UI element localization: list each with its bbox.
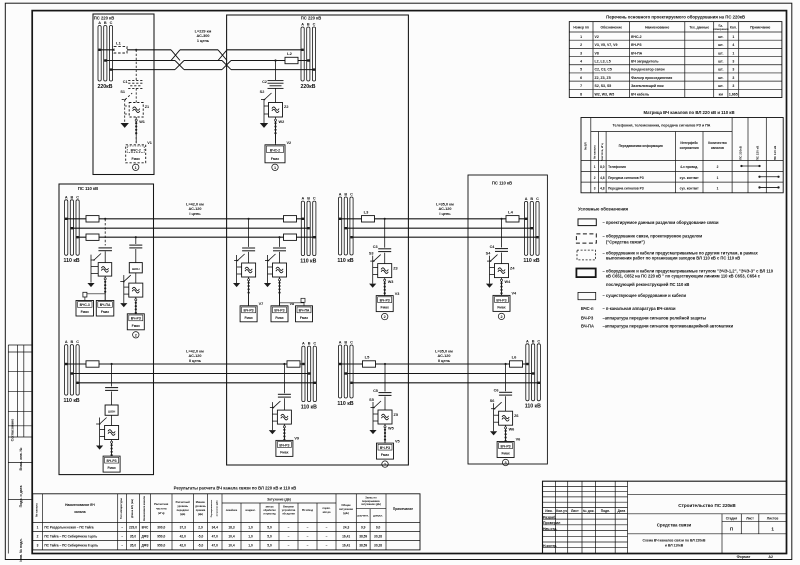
svg-text:АС-120: АС-120 (439, 207, 452, 211)
svg-text:№ канала: № канала (592, 145, 596, 159)
svg-text:ВЧ-РЗ: ВЧ-РЗ (380, 446, 390, 450)
svg-text:1,0: 1,0 (248, 534, 253, 538)
svg-text:выполнения работ по организаци: выполнения работ по организации заходов … (606, 256, 740, 261)
svg-text:сопряжения: сопряжения (680, 146, 699, 150)
svg-text:S3: S3 (369, 252, 374, 256)
svg-text:L3: L3 (364, 209, 369, 214)
svg-text:("Средства связи"): ("Средства связи") (606, 240, 645, 245)
svg-text:110 кВ: 110 кВ (525, 404, 541, 410)
svg-text:ВЧ-РЗ: ВЧ-РЗ (244, 309, 254, 313)
svg-text:V1: V1 (147, 141, 152, 145)
svg-text:Кол.уч: Кол.уч (556, 509, 567, 513)
svg-text:А: А (98, 21, 101, 25)
svg-text:V7: V7 (259, 302, 264, 306)
svg-text:2: 2 (37, 534, 39, 538)
svg-text:V6: V6 (516, 438, 521, 442)
svg-text:Лист: Лист (746, 516, 754, 520)
svg-text:V5: V5 (395, 439, 400, 443)
svg-text:конденс.: конденс. (245, 509, 256, 512)
svg-text:ВЧ-ПА: ВЧ-ПА (631, 51, 643, 55)
svg-text:5,0: 5,0 (267, 534, 272, 538)
svg-text:Подп.: Подп. (601, 509, 610, 513)
svg-text:Fмах: Fмах (132, 157, 140, 161)
svg-text:Затухание (дБ): Затухание (дБ) (267, 498, 291, 502)
svg-text:C3: C3 (373, 245, 378, 249)
svg-text:Наименование ВЧ: Наименование ВЧ (65, 503, 95, 507)
svg-text:ВЧ-РЗ: ВЧ-РЗ (501, 444, 511, 448)
svg-text:2: 2 (580, 43, 582, 47)
svg-text:Тип аппаратуры: Тип аппаратуры (119, 497, 123, 519)
svg-text:ПС Раздольненская – ПС Тайга: ПС Раздольненская – ПС Тайга (44, 525, 93, 529)
svg-text:ВЧС-2: ВЧС-2 (131, 148, 141, 152)
svg-text:Инв. № подл.: Инв. № подл. (19, 538, 23, 561)
svg-text:37,3: 37,3 (180, 525, 186, 529)
svg-text:Z2: Z2 (284, 105, 288, 109)
svg-text:Лист: Лист (571, 509, 579, 513)
svg-text:–: – (121, 544, 123, 548)
svg-text:Расчетная: Расчетная (154, 502, 169, 506)
svg-text:10,4: 10,4 (228, 534, 234, 538)
svg-text:C1: C1 (123, 80, 128, 84)
svg-text:В: В (530, 197, 533, 201)
svg-text:ВЧ-РЗ: ВЧ-РЗ (380, 298, 390, 302)
svg-text:А2: А2 (768, 555, 773, 559)
svg-text:110 кВ: 110 кВ (300, 258, 316, 264)
svg-text:Z5: Z5 (394, 413, 398, 417)
svg-text:Fмах: Fмах (244, 316, 252, 320)
svg-text:–аппаратура передачи сигналов: –аппаратура передачи сигналов противоава… (603, 324, 734, 329)
svg-text:1: 1 (717, 176, 719, 180)
svg-text:линейное: линейное (226, 509, 238, 512)
svg-text:С: С (350, 341, 353, 345)
svg-text:3: 3 (732, 60, 734, 64)
svg-text:ПС 220 кВ: ПС 220 кВ (301, 16, 321, 21)
svg-text:II цепь: II цепь (438, 359, 451, 363)
svg-text:110 кВ: 110 кВ (301, 404, 317, 410)
svg-text:ШОН: ШОН (108, 410, 116, 414)
svg-text:1: 1 (732, 35, 734, 39)
svg-text:АС-120: АС-120 (438, 354, 451, 358)
svg-text:Н.контр.: Н.контр. (543, 544, 557, 548)
svg-text:В: В (104, 21, 107, 25)
svg-text:L=35,0 км: L=35,0 км (435, 350, 453, 354)
svg-text:Частота, кГц: Частота, кГц (600, 143, 604, 161)
svg-text:кВ С651, С652 на ПС 220 кВ " п: кВ С651, С652 на ПС 220 кВ " по существу… (606, 274, 761, 279)
svg-text:W3: W3 (388, 280, 394, 284)
svg-text:–: – (326, 544, 328, 548)
svg-text:110 кВ: 110 кВ (64, 258, 80, 264)
svg-text:№ канала: № канала (35, 503, 39, 517)
svg-text:апп-ра: апп-ра (266, 505, 274, 508)
svg-text:Условные обозначения: Условные обозначения (578, 207, 629, 212)
svg-text:Fмах: Fмах (81, 310, 89, 314)
svg-text:47,0: 47,0 (212, 544, 218, 548)
svg-text:16,41: 16,41 (342, 544, 350, 548)
svg-text:V3, V5, V7, V9: V3, V5, V7, V9 (595, 43, 618, 47)
svg-text:I цепь: I цепь (189, 212, 201, 216)
svg-text:ВЧ-РЗ: ВЧ-РЗ (274, 309, 284, 313)
svg-text:– п-канальная аппаратура ВЧ-с: – п-канальная аппаратура ВЧ-связи (603, 306, 676, 311)
svg-text:Дата: Дата (618, 509, 626, 513)
svg-text:–: – (326, 525, 328, 529)
svg-text:измерения: измерения (713, 27, 729, 31)
svg-text:ПС 220 кВ: ПС 220 кВ (756, 145, 760, 160)
svg-text:3: 3 (732, 84, 734, 88)
svg-text:3: 3 (505, 461, 507, 465)
svg-text:АС-120: АС-120 (189, 207, 202, 211)
svg-text:9,9: 9,9 (361, 525, 366, 529)
svg-text:1,0: 1,0 (248, 525, 253, 529)
svg-text:1: 1 (274, 166, 276, 170)
svg-text:Z1: Z1 (145, 105, 149, 109)
svg-text:ВЧ-РЗ: ВЧ-РЗ (631, 43, 642, 47)
svg-text:220кВ: 220кВ (301, 84, 316, 90)
svg-text:Примечание: Примечание (393, 507, 413, 511)
svg-text:4-х провод.: 4-х провод. (680, 165, 698, 169)
svg-text:Миним.: Миним. (196, 500, 206, 504)
svg-text:уровень: уровень (177, 505, 188, 508)
svg-text:1,0: 1,0 (248, 544, 253, 548)
svg-text:Z2, Z3, Z5: Z2, Z3, Z5 (595, 76, 611, 80)
svg-text:9,0: 9,0 (376, 525, 381, 529)
svg-text:и присоед: и присоед (263, 513, 276, 516)
svg-text:110 кВ: 110 кВ (523, 258, 539, 264)
svg-text:24,3: 24,3 (343, 525, 349, 529)
svg-text:№ВЛ: №ВЛ (584, 142, 588, 150)
svg-text:Назначение канала: Назначение канала (142, 496, 146, 521)
svg-text:L2, L3, L5: L2, L3, L5 (595, 60, 611, 64)
svg-text:42,0: 42,0 (180, 544, 186, 548)
svg-text:7: 7 (580, 84, 582, 88)
svg-text:–: – (307, 525, 309, 529)
svg-text:1: 1 (732, 51, 734, 55)
svg-text:ВЧ-РЗ: ВЧ-РЗ (107, 459, 117, 463)
svg-text:В: В (308, 342, 311, 346)
svg-text:3: 3 (594, 187, 596, 191)
svg-text:ВЧ обход: ВЧ обход (302, 509, 314, 512)
svg-text:Изм.: Изм. (545, 509, 552, 513)
svg-text:шт.: шт. (718, 60, 723, 64)
svg-text:1: 1 (594, 165, 596, 169)
svg-text:V3: V3 (395, 292, 400, 296)
svg-text:№ док.: № док. (583, 509, 594, 513)
svg-text:ПС 110 кВ: ПС 110 кВ (78, 186, 98, 191)
svg-text:5,0: 5,0 (267, 544, 272, 548)
svg-text:S2: S2 (260, 90, 265, 94)
svg-text:–: – (307, 544, 309, 548)
svg-text:300,0: 300,0 (157, 525, 165, 529)
svg-text:2: 2 (500, 315, 502, 319)
svg-text:10,4: 10,4 (228, 544, 234, 548)
svg-text:4: 4 (732, 43, 734, 47)
svg-text:В: В (344, 341, 347, 345)
svg-text:обработки: обработки (263, 509, 276, 512)
svg-text:В: В (307, 197, 310, 201)
svg-text:С: С (110, 21, 113, 25)
svg-text:(дБ): (дБ) (198, 512, 203, 516)
svg-text:38,59: 38,59 (359, 534, 367, 538)
svg-text:канала: канала (74, 510, 85, 514)
svg-text:объед-ния: объед-ния (282, 513, 295, 516)
svg-text:110 кВ: 110 кВ (337, 401, 353, 407)
svg-text:W2, W3, W5: W2, W3, W5 (595, 92, 615, 96)
svg-text:шт.: шт. (718, 35, 723, 39)
svg-text:ВЧ-ПА: ВЧ-ПА (581, 324, 594, 329)
svg-text:Длина ВЛ, (км): Длина ВЛ, (км) (130, 499, 134, 518)
svg-text:ШОН: ШОН (132, 267, 140, 271)
svg-text:приема: приема (196, 509, 206, 512)
svg-text:С: С (313, 197, 316, 201)
svg-text:Нач.отд.: Нач.отд. (543, 527, 557, 531)
svg-text:ВЧ заградитель: ВЧ заградитель (631, 60, 658, 64)
svg-text:каналов: каналов (711, 146, 724, 150)
svg-text:Количество: Количество (708, 141, 727, 145)
svg-text:сух. контакт: сух. контакт (680, 176, 699, 180)
svg-text:Разраб.: Разраб. (543, 515, 556, 519)
svg-text:Примечание: Примечание (750, 26, 770, 30)
svg-text:V9: V9 (294, 437, 299, 441)
svg-text:229,0: 229,0 (129, 525, 137, 529)
svg-text:ВЧС: ВЧС (142, 525, 149, 529)
svg-text:Стадия: Стадия (726, 516, 738, 520)
svg-text:V2: V2 (595, 35, 599, 39)
svg-text:S2, S3, S5: S2, S3, S5 (595, 84, 612, 88)
svg-text:L=229 км: L=229 км (195, 30, 212, 34)
svg-text:38,59: 38,59 (359, 544, 367, 548)
svg-text:апп-ра: апп-ра (323, 511, 331, 514)
svg-text:L=42,0 км: L=42,0 км (186, 203, 204, 207)
svg-text:Наименование: Наименование (645, 26, 669, 30)
svg-text:АС-300: АС-300 (197, 34, 210, 38)
svg-text:3: 3 (580, 51, 582, 55)
svg-text:–: – (288, 544, 290, 548)
svg-text:Результаты расчета ВЧ канала с: Результаты расчета ВЧ канала связи по ВЛ… (174, 486, 297, 491)
svg-text:Передаваемая информация: Передаваемая информация (619, 144, 663, 148)
svg-text:W2: W2 (279, 120, 285, 124)
svg-text:Fмах: Fмах (101, 310, 109, 314)
svg-text:ВЧ-РЗ: ВЧ-РЗ (131, 317, 141, 321)
svg-text:–: – (288, 525, 290, 529)
svg-text:-5,0: -5,0 (198, 544, 204, 548)
svg-text:1: 1 (384, 463, 386, 467)
svg-text:Fмах: Fмах (501, 452, 509, 456)
svg-text:–: – (326, 534, 328, 538)
svg-text:А: А (302, 197, 305, 201)
svg-text:последующей реконструкцией ПС: последующей реконструкцией ПС 110 кВ (606, 282, 689, 287)
svg-text:– оборудование связи, проекти: – оборудование связи, проектируемое разд… (603, 234, 703, 239)
svg-text:А: А (65, 195, 68, 199)
svg-text:1: 1 (37, 525, 39, 529)
svg-text:Номер пп: Номер пп (573, 26, 589, 30)
svg-text:–аппаратура передачи сигналов: –аппаратура передачи сигналов релейной з… (603, 315, 707, 320)
svg-text:С: С (76, 195, 79, 199)
svg-text:– проектируемое данным раздел: – проектируемое данным разделом оборудов… (603, 220, 719, 225)
svg-text:С: С (350, 193, 353, 197)
svg-text:4: 4 (580, 60, 582, 64)
svg-text:Передача сигналов РЗ: Передача сигналов РЗ (608, 176, 644, 180)
svg-text:В: В (532, 339, 535, 343)
svg-text:L4: L4 (508, 209, 513, 214)
svg-text:Fмах: Fмах (280, 450, 288, 454)
svg-text:Интерфейс: Интерфейс (680, 141, 698, 145)
svg-text:Проверил: Проверил (543, 521, 560, 525)
svg-text:S6: S6 (490, 399, 495, 403)
svg-text:I цепь: I цепь (439, 212, 451, 216)
svg-text:ВЧ-РЗ: ВЧ-РЗ (496, 298, 506, 302)
svg-text:4,8: 4,8 (600, 187, 605, 191)
svg-text:ПС 110 кВ: ПС 110 кВ (773, 145, 777, 160)
svg-text:C6: C6 (494, 389, 499, 393)
svg-text:– существующее оборудование и: – существующее оборудование и кабели (603, 293, 687, 298)
svg-text:Перекрываемое: Перекрываемое (211, 499, 213, 517)
svg-text:С: С (313, 23, 316, 27)
svg-text:шт.: шт. (718, 43, 723, 47)
svg-text:5,0: 5,0 (267, 525, 272, 529)
svg-text:В: В (307, 23, 310, 27)
svg-text:W1: W1 (139, 120, 145, 124)
svg-text:Расчетный: Расчетный (176, 500, 190, 504)
svg-text:Fмах: Fмах (497, 305, 505, 309)
svg-text:4,8: 4,8 (600, 176, 605, 180)
svg-text:–: – (121, 525, 123, 529)
svg-text:C2: C2 (262, 80, 267, 84)
svg-text:W6: W6 (509, 428, 515, 432)
svg-text:S5: S5 (369, 398, 374, 402)
svg-text:6: 6 (580, 76, 582, 80)
svg-text:Fмах: Fмах (271, 157, 279, 161)
svg-text:Передача сигналов РЗ: Передача сигналов РЗ (608, 187, 644, 191)
svg-text:шт.: шт. (718, 51, 723, 55)
svg-text:Fмах: Fмах (381, 306, 389, 310)
svg-text:В: В (71, 340, 74, 344)
svg-text:А: А (526, 339, 529, 343)
svg-text:2,9: 2,9 (198, 525, 203, 529)
svg-text:В: В (71, 195, 74, 199)
svg-text:ВЧ-РЗ: ВЧ-РЗ (279, 443, 289, 447)
svg-text:–: – (288, 534, 290, 538)
svg-text:ПС Тайга – ПС Сибирячиха I цеп: ПС Тайга – ПС Сибирячиха I цепь (44, 534, 97, 538)
svg-text:-5,0: -5,0 (198, 534, 204, 538)
svg-text:ДФЗ: ДФЗ (142, 544, 149, 548)
svg-text:16,41: 16,41 (342, 534, 350, 538)
svg-text:км: км (719, 92, 724, 96)
svg-text:порял.: порял. (323, 507, 331, 510)
svg-text:Тех. данные: Тех. данные (689, 26, 709, 30)
svg-text:Заземляющий нож: Заземляющий нож (631, 84, 664, 88)
svg-text:950,0: 950,0 (157, 534, 165, 538)
svg-text:Внешние: Внешние (283, 505, 294, 508)
svg-text:5: 5 (580, 68, 582, 72)
svg-text:Схема ВЧ каналов связи по ВЛ 2: Схема ВЧ каналов связи по ВЛ 220кВ (643, 539, 706, 543)
svg-text:П: П (730, 527, 733, 532)
svg-text:Согласовано: Согласовано (11, 419, 15, 442)
svg-text:расчетн.: расчетн. (358, 515, 370, 518)
svg-text:(дБ): (дБ) (343, 511, 349, 515)
svg-text:30,28: 30,28 (374, 534, 382, 538)
svg-text:ВЧ кабель: ВЧ кабель (631, 92, 649, 96)
svg-text:А: А (302, 342, 305, 346)
svg-text:устройства: устройства (282, 509, 296, 512)
svg-text:ПС 220кВ: ПС 220кВ (739, 145, 743, 160)
svg-text:Матрица ВЧ каналов по ВЛ 220 к: Матрица ВЧ каналов по ВЛ 220 кВ и 110 кВ (643, 110, 734, 115)
svg-text:2: 2 (384, 315, 386, 319)
svg-text:ВЧС-п: ВЧС-п (581, 306, 594, 311)
svg-text:Z6: Z6 (514, 414, 518, 418)
svg-text:L=42,0 км: L=42,0 км (186, 350, 204, 354)
svg-text:Fмах: Fмах (132, 324, 140, 328)
svg-text:Fмах: Fмах (275, 316, 283, 320)
svg-text:сух. контакт: сух. контакт (680, 187, 699, 191)
svg-text:Фильтр присоединения: Фильтр присоединения (631, 76, 672, 80)
svg-text:30,28: 30,28 (374, 544, 382, 548)
svg-text:S1: S1 (120, 90, 125, 94)
svg-text:шт.: шт. (718, 84, 723, 88)
svg-text:3: 3 (37, 544, 39, 548)
svg-text:42,0: 42,0 (180, 534, 186, 538)
svg-text:и ВЛ 110кВ: и ВЛ 110кВ (665, 544, 684, 548)
svg-text:2: 2 (717, 165, 719, 169)
svg-text:35,0: 35,0 (130, 534, 136, 538)
svg-text:1: 1 (717, 187, 719, 191)
svg-text:Fмах: Fмах (381, 453, 389, 457)
svg-text:(кГц): (кГц) (158, 511, 165, 515)
svg-text:W4: W4 (505, 280, 512, 284)
svg-text:Формат: Формат (737, 555, 751, 559)
svg-text:L1: L1 (116, 40, 121, 45)
svg-text:А: А (339, 193, 342, 197)
svg-text:C2, C3, C5: C2, C3, C5 (595, 68, 612, 72)
svg-text:С: С (76, 340, 79, 344)
svg-text:220кВ: 220кВ (98, 84, 113, 90)
svg-text:Телефония: Телефония (608, 165, 626, 169)
svg-text:8: 8 (580, 92, 582, 96)
svg-text:3: 3 (732, 68, 734, 72)
svg-text:Строительство ПС 220кВ: Строительство ПС 220кВ (678, 503, 736, 508)
svg-text:ВЧ-ПА: ВЧ-ПА (100, 303, 111, 307)
svg-text:2: 2 (135, 333, 137, 337)
svg-text:ПС 110 кВ: ПС 110 кВ (492, 181, 512, 186)
svg-text:ВЧ-РЗ: ВЧ-РЗ (581, 315, 594, 320)
svg-text:ВЧС-2: ВЧС-2 (631, 35, 642, 39)
svg-text:1 цепь: 1 цепь (197, 39, 210, 43)
svg-text:Листов: Листов (767, 516, 778, 520)
svg-text:А: А (525, 197, 528, 201)
svg-text:А: А (301, 23, 304, 27)
svg-text:ПС 220 кВ: ПС 220 кВ (94, 16, 114, 21)
svg-text:(дБ): (дБ) (180, 512, 185, 516)
svg-text:8,0: 8,0 (600, 165, 605, 169)
svg-text:ВЧС-2: ВЧС-2 (270, 148, 280, 152)
svg-text:V8: V8 (595, 51, 599, 55)
svg-text:Обозначение: Обозначение (601, 26, 623, 30)
svg-text:47,0: 47,0 (212, 534, 218, 538)
svg-text:А: А (65, 340, 68, 344)
svg-text:допуст.: допуст. (373, 515, 383, 518)
svg-text:ДФЗ: ДФЗ (142, 534, 149, 538)
svg-text:Конденсатор связи: Конденсатор связи (631, 68, 665, 72)
svg-text:Fмах: Fмах (107, 466, 115, 470)
svg-text:Перечень основного проектируем: Перечень основного проектируемого оборуд… (606, 15, 745, 20)
svg-text:Взам. инв. №: Взам. инв. № (19, 447, 23, 470)
svg-text:110 кВ: 110 кВ (337, 258, 353, 264)
svg-text:L2: L2 (287, 51, 292, 56)
svg-text:1: 1 (135, 166, 137, 170)
svg-text:950,0: 950,0 (157, 544, 165, 548)
svg-text:V2: V2 (287, 141, 292, 145)
svg-text:Кол.: Кол. (730, 26, 737, 30)
svg-text:А: А (339, 341, 342, 345)
svg-text:Подп. и дата: Подп. и дата (19, 486, 23, 508)
